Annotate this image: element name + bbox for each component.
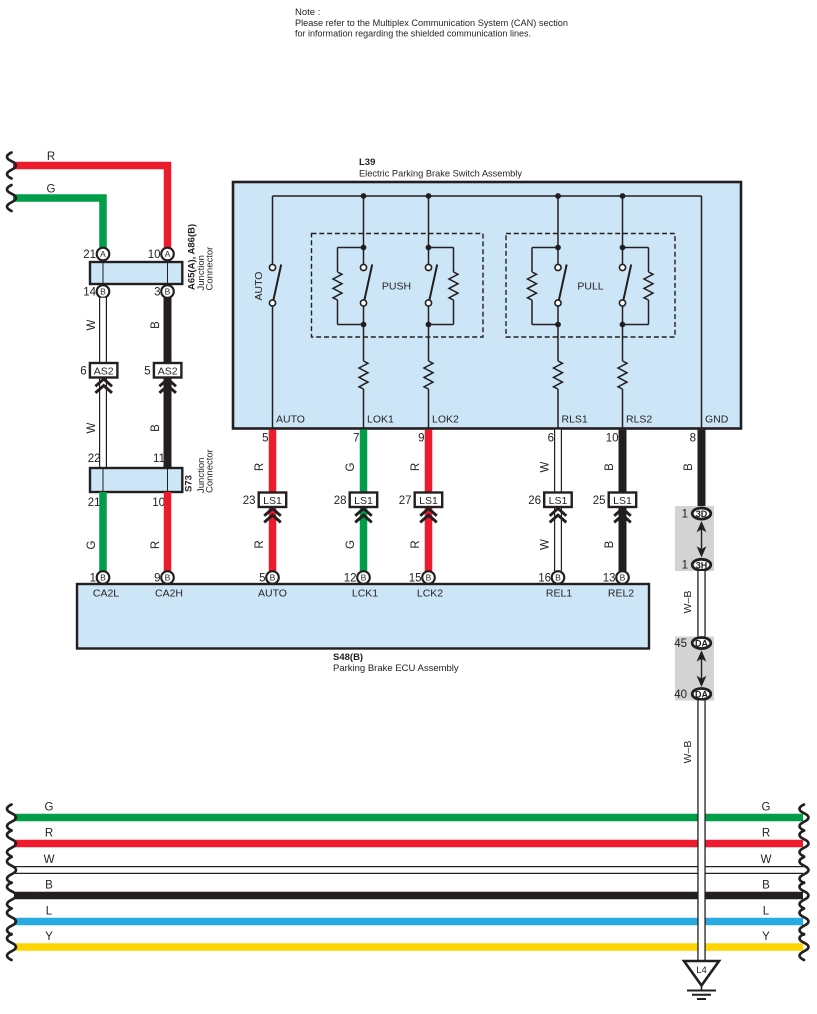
label S73 Junction Connector <box>184 449 216 493</box>
switch AUTO <box>269 264 281 306</box>
wire LOK1 column middle <box>363 306 365 361</box>
node bottom of RLS2 parallel branch <box>620 322 626 328</box>
svg-text:A: A <box>100 249 106 259</box>
label A65(A), A86(B) Junction Connector <box>187 224 216 291</box>
svg-text:21: 21 <box>88 497 101 509</box>
pin 13 (B) of ECU (REL2) <box>603 571 629 584</box>
svg-text:RLS1: RLS1 <box>562 414 588 426</box>
wire W-B from DA pin 40 to ground L4 <box>697 701 705 962</box>
svg-text:R: R <box>254 540 266 548</box>
resistor RLS1 series <box>554 361 563 389</box>
svg-text:PUSH: PUSH <box>382 281 411 293</box>
pin 16 (B) of ECU (REL1) <box>538 571 564 584</box>
L39 switch assembly body <box>233 182 741 429</box>
wire R (red) from left to junction connector pin 10A <box>13 166 168 249</box>
wire bottom branch RLS2 <box>623 324 649 326</box>
svg-text:G: G <box>762 802 771 814</box>
resistor RLS2 series <box>618 361 627 389</box>
svg-text:1: 1 <box>682 508 688 520</box>
connector LS1 pin 23 <box>243 493 286 523</box>
svg-text:26: 26 <box>528 495 541 507</box>
ground symbol <box>687 986 716 1000</box>
connector LS1 pin 27 <box>399 493 442 523</box>
svg-text:7: 7 <box>353 433 359 445</box>
junction connector S73 body <box>90 468 182 492</box>
svg-text:AS2: AS2 <box>94 365 114 377</box>
svg-text:40: 40 <box>674 689 687 701</box>
note text <box>295 7 568 39</box>
svg-text:Note :: Note : <box>295 7 320 18</box>
svg-text:LS1: LS1 <box>613 495 632 507</box>
connector DA pin 40 <box>674 689 711 701</box>
pin 3 (B) of junction connector A65/A86 <box>154 285 174 298</box>
harness wire B (horizontal) <box>14 892 803 900</box>
pin 21 (A) of junction connector A65/A86 <box>83 248 109 261</box>
wire W from L39 pin 6 to ECU (REL1) <box>554 430 562 571</box>
wire bottom branch LOK1 <box>338 324 364 326</box>
node on bus at LOK1 <box>361 193 367 199</box>
wire AUTO column lower <box>272 306 274 428</box>
wire G (green) from S73 pin 21 to ECU pin 1 <box>99 492 107 572</box>
wire top branch RLS1 <box>532 247 558 249</box>
svg-text:1: 1 <box>90 572 96 584</box>
svg-text:LOK1: LOK1 <box>367 414 394 426</box>
wire end mark (R wire, left) <box>7 153 16 179</box>
svg-text:B: B <box>361 573 367 583</box>
resistor LOK1 series <box>359 361 368 389</box>
svg-text:B: B <box>165 573 171 583</box>
wire B from L39 GND pin 8 to connector 3D <box>698 430 706 508</box>
svg-text:8: 8 <box>690 433 696 445</box>
node on bus at RLS1 <box>555 193 561 199</box>
wire LOK1 column upper <box>363 196 365 265</box>
wire G from L39 pin 7 to ECU (LCK1) <box>360 430 368 571</box>
svg-text:10: 10 <box>148 249 161 261</box>
wire top branch RLS2 <box>623 247 649 249</box>
svg-text:L39: L39 <box>359 157 375 168</box>
svg-text:5: 5 <box>259 572 265 584</box>
svg-text:13: 13 <box>603 572 616 584</box>
pin 14 (B) of junction connector A65/A86 <box>83 285 109 298</box>
svg-text:S73: S73 <box>184 475 195 492</box>
node bottom of LOK2 parallel branch <box>426 322 432 328</box>
svg-text:B: B <box>620 573 626 583</box>
svg-text:L: L <box>46 906 53 918</box>
wire W-B from 3H to connector DA <box>697 571 705 637</box>
resistor in RLS1 branch <box>528 248 537 325</box>
wire end mark (W wire, right) <box>800 857 809 883</box>
wire end mark (B wire, left) <box>7 883 16 909</box>
svg-text:G: G <box>45 802 54 814</box>
wire end mark (G wire, right) <box>800 805 809 831</box>
svg-text:AS2: AS2 <box>158 365 178 377</box>
svg-text:LS1: LS1 <box>419 495 438 507</box>
wire RLS2 column upper <box>622 196 624 265</box>
svg-text:R: R <box>762 828 770 840</box>
pin 1 (B) of ECU (CA2L) <box>90 571 110 584</box>
wire end mark (B wire, right) <box>800 883 809 909</box>
svg-text:R: R <box>150 541 162 549</box>
wire LOK2 column middle <box>428 306 430 361</box>
svg-text:9: 9 <box>418 433 424 445</box>
wire LOK2 column upper <box>428 196 430 265</box>
svg-text:W–B: W–B <box>682 741 694 764</box>
svg-text:W: W <box>540 461 552 472</box>
svg-text:W: W <box>761 854 772 866</box>
wire B (black) from pin 3B through AS2 to S73 pin 11 <box>164 298 172 468</box>
svg-text:10: 10 <box>606 433 619 445</box>
svg-text:G: G <box>86 540 98 549</box>
node top of RLS2 parallel branch <box>620 245 626 251</box>
svg-text:Electric Parking Brake Switch: Electric Parking Brake Switch Assembly <box>359 169 522 180</box>
svg-text:Connector: Connector <box>204 247 215 291</box>
svg-text:AUTO: AUTO <box>253 272 265 301</box>
svg-text:3H: 3H <box>696 560 708 570</box>
switch PULL-1 <box>555 264 567 306</box>
svg-text:R: R <box>410 540 422 548</box>
dashed box PUSH switch group <box>312 234 484 338</box>
svg-text:W: W <box>86 422 98 433</box>
switch PUSH-1 <box>360 264 372 306</box>
wire RLS2 column middle <box>622 306 624 361</box>
wire AUTO column upper <box>272 196 274 265</box>
connector LS1 pin 26 <box>528 493 571 523</box>
svg-text:G: G <box>47 184 56 196</box>
svg-text:W–B: W–B <box>682 591 694 614</box>
svg-text:Y: Y <box>762 931 770 943</box>
resistor in RLS2 branch <box>644 248 653 325</box>
svg-text:G: G <box>345 462 357 471</box>
svg-text:LOK2: LOK2 <box>432 414 459 426</box>
wire GND column inside L39 <box>701 196 703 428</box>
harness wire L (horizontal) <box>14 918 803 926</box>
arrows between 3D and 3H <box>697 521 707 558</box>
wire bottom branch LOK2 <box>429 324 454 326</box>
pin 5 (B) of ECU (AUTO) <box>259 571 279 584</box>
svg-text:B: B <box>165 287 171 297</box>
node bottom of LOK1 parallel branch <box>361 322 367 328</box>
connector DA/DA shaded block <box>675 637 714 701</box>
svg-text:LCK2: LCK2 <box>417 588 443 600</box>
dashed box PULL switch group <box>506 234 675 338</box>
resistor in LOK2 branch <box>449 248 458 325</box>
wire end mark (W wire, left) <box>7 857 16 883</box>
arrows between DA connectors <box>697 650 707 687</box>
svg-text:12: 12 <box>344 572 357 584</box>
switch PULL-2 <box>619 264 631 306</box>
harness wire Y (horizontal) <box>14 943 803 951</box>
svg-text:W: W <box>44 854 55 866</box>
svg-text:15: 15 <box>409 572 422 584</box>
wire RLS1 column lower <box>557 389 559 428</box>
svg-text:A: A <box>165 249 171 259</box>
svg-text:3D: 3D <box>696 509 708 519</box>
svg-text:1: 1 <box>682 560 688 572</box>
svg-text:B: B <box>45 880 53 892</box>
svg-text:R: R <box>254 463 266 471</box>
wire G (green) from left to junction connector pin 21A <box>13 198 103 249</box>
pin 12 (B) of ECU (LCK1) <box>344 571 370 584</box>
svg-text:27: 27 <box>399 495 412 507</box>
svg-text:W: W <box>86 319 98 330</box>
harness wire W (horizontal) <box>14 867 803 874</box>
wire RLS2 column lower <box>622 389 624 428</box>
svg-text:B: B <box>100 287 106 297</box>
svg-text:RLS2: RLS2 <box>626 414 652 426</box>
svg-text:S48(B): S48(B) <box>333 652 363 663</box>
svg-text:6: 6 <box>548 433 554 445</box>
harness wire R (horizontal) <box>14 840 803 848</box>
svg-text:Connector: Connector <box>204 449 215 493</box>
svg-text:14: 14 <box>83 286 96 298</box>
wire LOK1 column lower <box>363 389 365 428</box>
node top of RLS1 parallel branch <box>555 245 561 251</box>
svg-text:B: B <box>683 463 695 471</box>
svg-text:16: 16 <box>538 572 551 584</box>
connector AS2 pin 5 <box>144 363 181 393</box>
svg-text:23: 23 <box>243 495 256 507</box>
connector AS2 pin 6 <box>80 363 117 393</box>
wire RLS1 column upper <box>557 196 559 265</box>
svg-text:5: 5 <box>262 433 268 445</box>
svg-text:AUTO: AUTO <box>276 414 305 426</box>
connector LS1 pin 28 <box>334 493 377 523</box>
wire end mark (L wire, left) <box>7 909 16 935</box>
svg-text:45: 45 <box>674 638 687 650</box>
connector 3H pin 1 <box>682 559 711 571</box>
svg-text:DA: DA <box>695 639 708 649</box>
wire end mark (R wire, right) <box>800 831 809 857</box>
wire bottom branch RLS1 <box>532 324 558 326</box>
svg-text:21: 21 <box>83 249 96 261</box>
node bottom of RLS1 parallel branch <box>555 322 561 328</box>
svg-text:R: R <box>47 151 55 163</box>
node top of LOK2 parallel branch <box>426 245 432 251</box>
svg-text:B: B <box>270 573 276 583</box>
S48(B) Parking Brake ECU Assembly body <box>77 584 649 649</box>
svg-text:AUTO: AUTO <box>258 588 287 600</box>
wire LOK2 column lower <box>428 389 430 428</box>
svg-text:CA2H: CA2H <box>155 588 183 600</box>
junction connector A65(A), A86(B) body <box>90 262 182 284</box>
connector DA pin 45 <box>674 638 711 650</box>
svg-text:B: B <box>426 573 432 583</box>
svg-text:CA2L: CA2L <box>93 588 119 600</box>
svg-text:W: W <box>540 539 552 550</box>
svg-text:B: B <box>100 573 106 583</box>
svg-text:B: B <box>555 573 561 583</box>
bus wire inside L39 <box>273 195 702 197</box>
pin 9 (B) of ECU (CA2H) <box>154 571 174 584</box>
svg-text:Parking Brake ECU Assembly: Parking Brake ECU Assembly <box>333 663 459 674</box>
wire R from L39 pin 5 to ECU (AUTO) <box>269 430 277 571</box>
svg-text:28: 28 <box>334 495 347 507</box>
wire R (red) from S73 pin 10 to ECU pin 9 <box>164 492 172 572</box>
ground L4 triangle <box>684 961 719 986</box>
svg-text:B: B <box>150 321 162 329</box>
wire W (white) from pin 14B through AS2 to S73 pin 22 <box>99 298 107 468</box>
switch PUSH-2 <box>425 264 437 306</box>
S48(B) Parking Brake ECU Assembly title <box>333 652 459 674</box>
svg-text:G: G <box>345 540 357 549</box>
svg-text:6: 6 <box>80 366 86 378</box>
svg-text:L4: L4 <box>696 965 707 976</box>
svg-text:9: 9 <box>154 572 160 584</box>
wire top branch LOK1 <box>338 247 364 249</box>
svg-text:5: 5 <box>144 366 150 378</box>
connector LS1 pin 25 <box>593 493 636 523</box>
svg-text:L: L <box>763 906 770 918</box>
wire end mark (L wire, right) <box>800 909 809 935</box>
svg-text:B: B <box>150 424 162 432</box>
node top of LOK1 parallel branch <box>361 245 367 251</box>
wire end mark (G wire, left) <box>7 805 16 831</box>
svg-text:3: 3 <box>154 286 160 298</box>
svg-text:DA: DA <box>695 690 708 700</box>
pin 10 (A) of junction connector A65/A86 <box>148 248 174 261</box>
connector 3D/3H shaded block <box>675 506 714 571</box>
connector 3D pin 1 <box>682 508 711 520</box>
wire RLS1 column middle <box>557 306 559 361</box>
svg-text:22: 22 <box>88 453 101 465</box>
svg-text:B: B <box>762 880 770 892</box>
wire B from L39 pin 10 to ECU (REL2) <box>619 430 627 571</box>
wire R from L39 pin 9 to ECU (LCK2) <box>425 430 433 571</box>
wire end mark (Y wire, right) <box>800 934 809 960</box>
svg-text:10: 10 <box>152 497 165 509</box>
svg-text:REL1: REL1 <box>546 588 572 600</box>
wire end mark (G wire, left) <box>7 185 16 211</box>
svg-text:LCK1: LCK1 <box>352 588 378 600</box>
svg-text:25: 25 <box>593 495 606 507</box>
svg-text:R: R <box>410 463 422 471</box>
resistor LOK2 series <box>424 361 433 389</box>
svg-text:LS1: LS1 <box>549 495 568 507</box>
svg-text:B: B <box>604 463 616 471</box>
wire end mark (R wire, left) <box>7 831 16 857</box>
L39 Electric Parking Brake Switch Assembly title <box>359 157 522 180</box>
harness wire G (horizontal) <box>14 814 803 822</box>
svg-text:Y: Y <box>45 931 53 943</box>
svg-text:for information regarding the: for information regarding the shielded c… <box>295 28 531 39</box>
svg-text:LS1: LS1 <box>354 495 373 507</box>
svg-text:B: B <box>604 540 616 548</box>
svg-text:11: 11 <box>153 453 165 465</box>
svg-text:LS1: LS1 <box>263 495 282 507</box>
svg-text:PULL: PULL <box>577 281 603 293</box>
wire top branch LOK2 <box>429 247 454 249</box>
wire end mark (Y wire, left) <box>7 934 16 960</box>
svg-text:R: R <box>45 828 53 840</box>
node on bus at LOK2 <box>426 193 432 199</box>
resistor in LOK1 branch <box>333 248 342 325</box>
svg-text:GND: GND <box>705 414 729 426</box>
node on bus at RLS2 <box>620 193 626 199</box>
svg-text:Please refer to the Multiplex: Please refer to the Multiplex Communicat… <box>295 18 568 29</box>
svg-text:REL2: REL2 <box>608 588 634 600</box>
pin 15 (B) of ECU (LCK2) <box>409 571 435 584</box>
